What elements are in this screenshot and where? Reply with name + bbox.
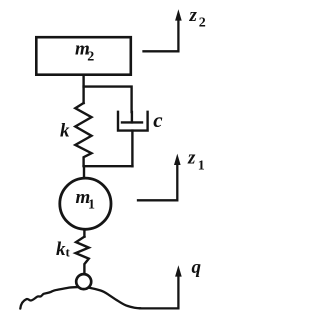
spring kt xyxy=(76,237,89,273)
svg-text:k: k xyxy=(60,121,70,142)
svg-text:1: 1 xyxy=(198,159,205,174)
svg-text:t: t xyxy=(66,245,71,260)
svg-text:q: q xyxy=(192,257,202,278)
svg-text:z: z xyxy=(187,148,196,169)
svg-text:2: 2 xyxy=(199,16,206,31)
axis z1 bracket xyxy=(138,161,177,200)
svg-text:1: 1 xyxy=(88,198,95,213)
svg-text:c: c xyxy=(153,108,163,132)
wire damper bottom rod xyxy=(131,131,133,167)
arrowhead z1 xyxy=(174,154,181,165)
spring k xyxy=(75,103,91,166)
arrowhead q xyxy=(175,265,182,276)
axis q bracket xyxy=(140,273,178,308)
svg-text:2: 2 xyxy=(87,50,94,65)
arrowhead z2 xyxy=(175,9,182,20)
svg-text:z: z xyxy=(189,5,198,26)
wire bottom bar xyxy=(84,165,133,167)
ground road profile xyxy=(20,287,140,309)
wire m1 to kt xyxy=(83,230,85,237)
mass m1 xyxy=(60,178,111,229)
wheel contact circle xyxy=(76,274,91,289)
damper c piston plate xyxy=(122,121,142,123)
wire damper-branch top xyxy=(84,87,132,112)
damper C piston rod xyxy=(131,112,133,122)
wire bar to mass m1 xyxy=(83,166,85,178)
axis z2 bracket xyxy=(144,17,179,51)
damper c cylinder xyxy=(118,112,148,131)
mass m2 xyxy=(36,37,131,74)
svg-text:k: k xyxy=(56,239,66,260)
wire spring-top stem xyxy=(82,76,84,103)
